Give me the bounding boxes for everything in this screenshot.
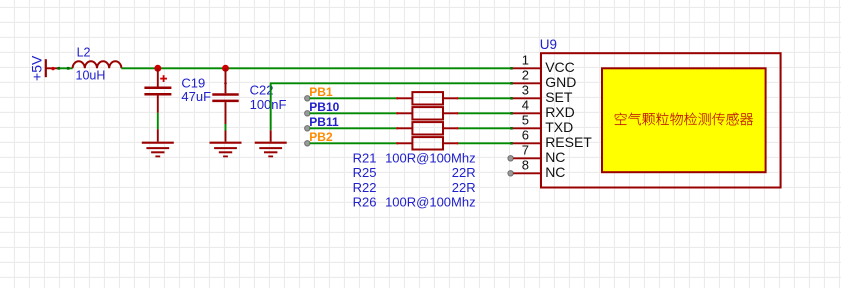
svg-text:NC: NC: [545, 164, 565, 180]
wire net PB2: [305, 130, 512, 146]
wire net PB10: [305, 100, 512, 116]
svg-text:RXD: RXD: [545, 104, 575, 120]
svg-text:R25: R25: [353, 165, 377, 180]
capacitor C19: [144, 68, 211, 141]
svg-text:2: 2: [522, 68, 529, 83]
wire net PB11: [305, 115, 512, 131]
svg-text:PB10: PB10: [309, 100, 339, 114]
svg-text:5: 5: [522, 113, 529, 128]
resistor R21: [396, 92, 458, 104]
wire GND net: [271, 83, 512, 141]
svg-text:R22: R22: [353, 180, 377, 195]
svg-text:PB11: PB11: [309, 115, 339, 129]
svg-text:GND: GND: [545, 74, 576, 90]
svg-text:TXD: TXD: [545, 119, 573, 135]
pin 7 NC: [508, 143, 566, 165]
CJK label 空气颗粒物检测传感器: [615, 113, 753, 126]
svg-text:R26: R26: [353, 194, 377, 209]
power port +5V: [28, 55, 59, 81]
svg-text:10uH: 10uH: [76, 68, 106, 82]
svg-text:+5V: +5V: [28, 55, 44, 81]
inductor L2: [73, 45, 122, 82]
capacitor C22: [212, 68, 286, 141]
svg-text:4: 4: [522, 98, 529, 113]
svg-text:U9: U9: [540, 37, 557, 52]
pin 8 NC: [508, 158, 566, 180]
resistor R26: [396, 137, 458, 149]
svg-text:NC: NC: [545, 149, 565, 165]
ground under C22: [210, 143, 242, 157]
ground on GND net: [255, 143, 287, 157]
junction at C22: [222, 65, 229, 72]
wire net PB1: [305, 85, 512, 101]
pin 4 RXD: [510, 98, 575, 120]
svg-text:R21: R21: [353, 151, 377, 166]
op-amp U9 box: [540, 37, 781, 187]
pin 5 TXD: [510, 113, 573, 135]
svg-text:22R: 22R: [452, 180, 476, 195]
pin 1 VCC: [510, 53, 575, 75]
svg-text:L2: L2: [77, 45, 91, 59]
svg-text:100nF: 100nF: [250, 97, 287, 112]
resistor R22: [396, 122, 458, 134]
ground under C19: [142, 143, 174, 157]
yellow sensor description box: [602, 68, 766, 172]
svg-text:VCC: VCC: [545, 59, 575, 75]
pin 2 GND: [510, 68, 576, 90]
junction at C19: [154, 65, 161, 72]
svg-text:6: 6: [522, 128, 529, 143]
wire VCC net: [121, 67, 511, 69]
pin 6 RESET: [510, 128, 592, 150]
resistor values text block: [353, 151, 476, 166]
svg-text:7: 7: [522, 143, 529, 158]
svg-text:RESET: RESET: [545, 134, 592, 150]
svg-text:100R@100Mhz: 100R@100Mhz: [385, 151, 476, 166]
svg-text:PB2: PB2: [309, 130, 333, 144]
svg-text:1: 1: [522, 53, 529, 68]
resistor R25: [396, 107, 458, 119]
svg-text:8: 8: [522, 158, 529, 173]
svg-text:100R@100Mhz: 100R@100Mhz: [385, 194, 476, 209]
pin 3 SET: [510, 83, 573, 105]
svg-text:22R: 22R: [452, 165, 476, 180]
svg-text:PB1: PB1: [309, 85, 333, 99]
svg-text:3: 3: [522, 83, 529, 98]
svg-text:47uF: 47uF: [181, 89, 211, 104]
wire +5V to L2: [57, 67, 73, 70]
svg-text:SET: SET: [545, 89, 573, 105]
